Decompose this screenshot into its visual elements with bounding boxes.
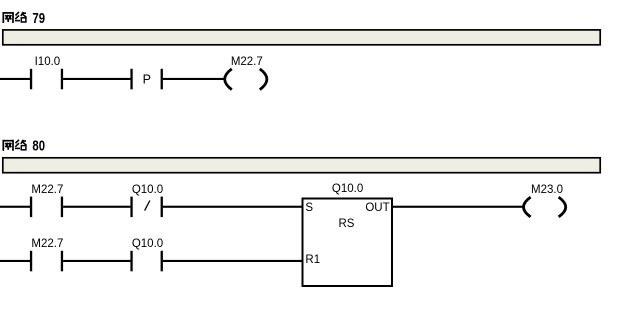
wire rung1 mid [63, 78, 130, 80]
svg-text:M22.7: M22.7 [31, 238, 63, 250]
svg-text:S: S [305, 202, 313, 214]
coil M22.7 [225, 69, 267, 90]
network 80 comment bar [3, 158, 600, 173]
svg-text:M22.7: M22.7 [231, 56, 263, 68]
wire OUT to coil M23.0 [392, 206, 524, 208]
glyph 网 [3, 140, 14, 151]
contact Q10.0 NO (rung B) [130, 238, 163, 271]
svg-text:I10.0: I10.0 [35, 56, 61, 68]
svg-text:80: 80 [32, 139, 45, 155]
svg-text:OUT: OUT [365, 202, 389, 214]
wire rungB mid [63, 260, 130, 262]
contact I10.0 [30, 56, 63, 90]
contact M22.7 (rung A) [30, 184, 63, 217]
svg-text:P: P [143, 72, 151, 86]
wire rungB left [0, 260, 30, 262]
svg-text:R1: R1 [305, 254, 320, 266]
svg-text:RS: RS [339, 218, 355, 230]
contact Q10.0 NC (rung A) [130, 184, 163, 217]
wire rungA mid [63, 206, 130, 208]
glyph 络 [15, 12, 27, 22]
network 79 comment bar [3, 30, 600, 45]
svg-text:Q10.0: Q10.0 [332, 183, 363, 195]
glyph 络 [15, 140, 27, 150]
wire rung1 left [0, 78, 30, 80]
svg-text:M23.0: M23.0 [531, 184, 563, 196]
coil M23.0 [524, 197, 566, 217]
network 79 title label [3, 11, 45, 27]
svg-text:Q10.0: Q10.0 [132, 184, 163, 196]
svg-text:Q10.0: Q10.0 [132, 238, 163, 250]
contact P (positive edge) [130, 69, 163, 90]
wire rungB to RS box R1 input [163, 260, 303, 262]
network 80 title label [3, 139, 45, 155]
wire rungA left [0, 206, 30, 208]
RS flip-flop block U1 [303, 199, 393, 287]
wire rung1 to coil [163, 78, 226, 80]
svg-text:79: 79 [32, 11, 45, 27]
svg-text:M22.7: M22.7 [31, 184, 63, 196]
wire rungA to RS box S input [163, 206, 303, 208]
contact M22.7 (rung B) [30, 238, 63, 271]
glyph 网 [3, 12, 14, 23]
